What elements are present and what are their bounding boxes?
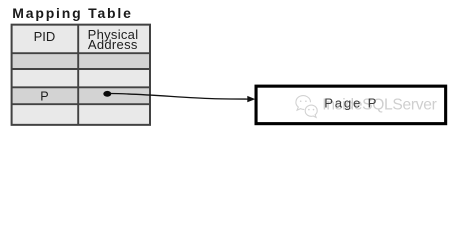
mapping table: row 3 background (dark, P row): [12, 87, 150, 104]
mapping table: outer border: [12, 25, 150, 125]
mapping table: row 4 background (light): [12, 104, 150, 125]
Page P box: [256, 86, 446, 124]
svg-text:Page P: Page P: [324, 96, 378, 111]
mapping table: row 2 background (light): [12, 69, 150, 87]
mapping table: grid line below row 2: [12, 86, 150, 88]
mapping table: grid line below header: [12, 52, 150, 54]
svg-text:Address: Address: [88, 37, 138, 52]
watermark: WeChat logo (small bubble): [305, 105, 317, 117]
svg-text:Mapping Table: Mapping Table: [12, 5, 132, 21]
arrow wire from dot to Page P box: [111, 94, 248, 100]
mapping table: grid line below row 1: [12, 68, 150, 70]
arrowhead: [247, 96, 255, 102]
svg-text:PID: PID: [34, 29, 56, 44]
watermark: WeChat logo (large bubble): [296, 96, 311, 111]
mapping table: row 1 background (dark): [12, 53, 150, 69]
pointer dot in row 3, physical address column: [103, 91, 111, 97]
svg-text:P: P: [40, 90, 48, 104]
mapping table: column divider: [77, 25, 79, 125]
mapping table: grid line below row 3: [12, 103, 150, 105]
mapping table: header row background: [12, 25, 150, 54]
